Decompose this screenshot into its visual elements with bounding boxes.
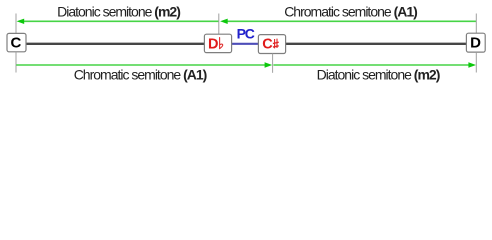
arrow: bottom-left green (C to C#, head at C#): [16, 62, 272, 67]
node box: Db: [204, 34, 231, 52]
svg-text:Chromatic semitone (A1): Chromatic semitone (A1): [284, 4, 417, 20]
tick: above Db: [218, 14, 220, 35]
node box: D: [466, 33, 485, 52]
tick: above C: [15, 14, 17, 34]
svg-text:Diatonic semitone (m2): Diatonic semitone (m2): [317, 67, 440, 83]
svg-text:D: D: [208, 36, 218, 52]
node box: C: [7, 33, 26, 51]
tick: below D: [475, 52, 477, 72]
svg-text:D: D: [470, 35, 481, 52]
wire: black line C# to D: [286, 43, 467, 45]
wire: blue line Db to C#: [232, 43, 259, 45]
svg-text:Chromatic semitone (A1): Chromatic semitone (A1): [74, 67, 207, 83]
wire: black line C to Db: [26, 43, 204, 45]
svg-text:PC: PC: [237, 26, 255, 42]
tick: above D: [475, 14, 477, 34]
svg-text:C: C: [262, 37, 273, 53]
node box: C#: [258, 35, 285, 54]
tick: below C: [15, 52, 17, 73]
svg-text:Diatonic semitone (m2): Diatonic semitone (m2): [57, 4, 180, 20]
arrow: top-right green (D to Db, head at Db): [220, 19, 476, 24]
arrow: bottom-right green (C# to D, head at D): [273, 62, 476, 67]
svg-text:C: C: [10, 34, 21, 51]
tick: below C#: [272, 54, 274, 73]
arrow: top-left green (Db to C, head at C): [17, 19, 219, 24]
